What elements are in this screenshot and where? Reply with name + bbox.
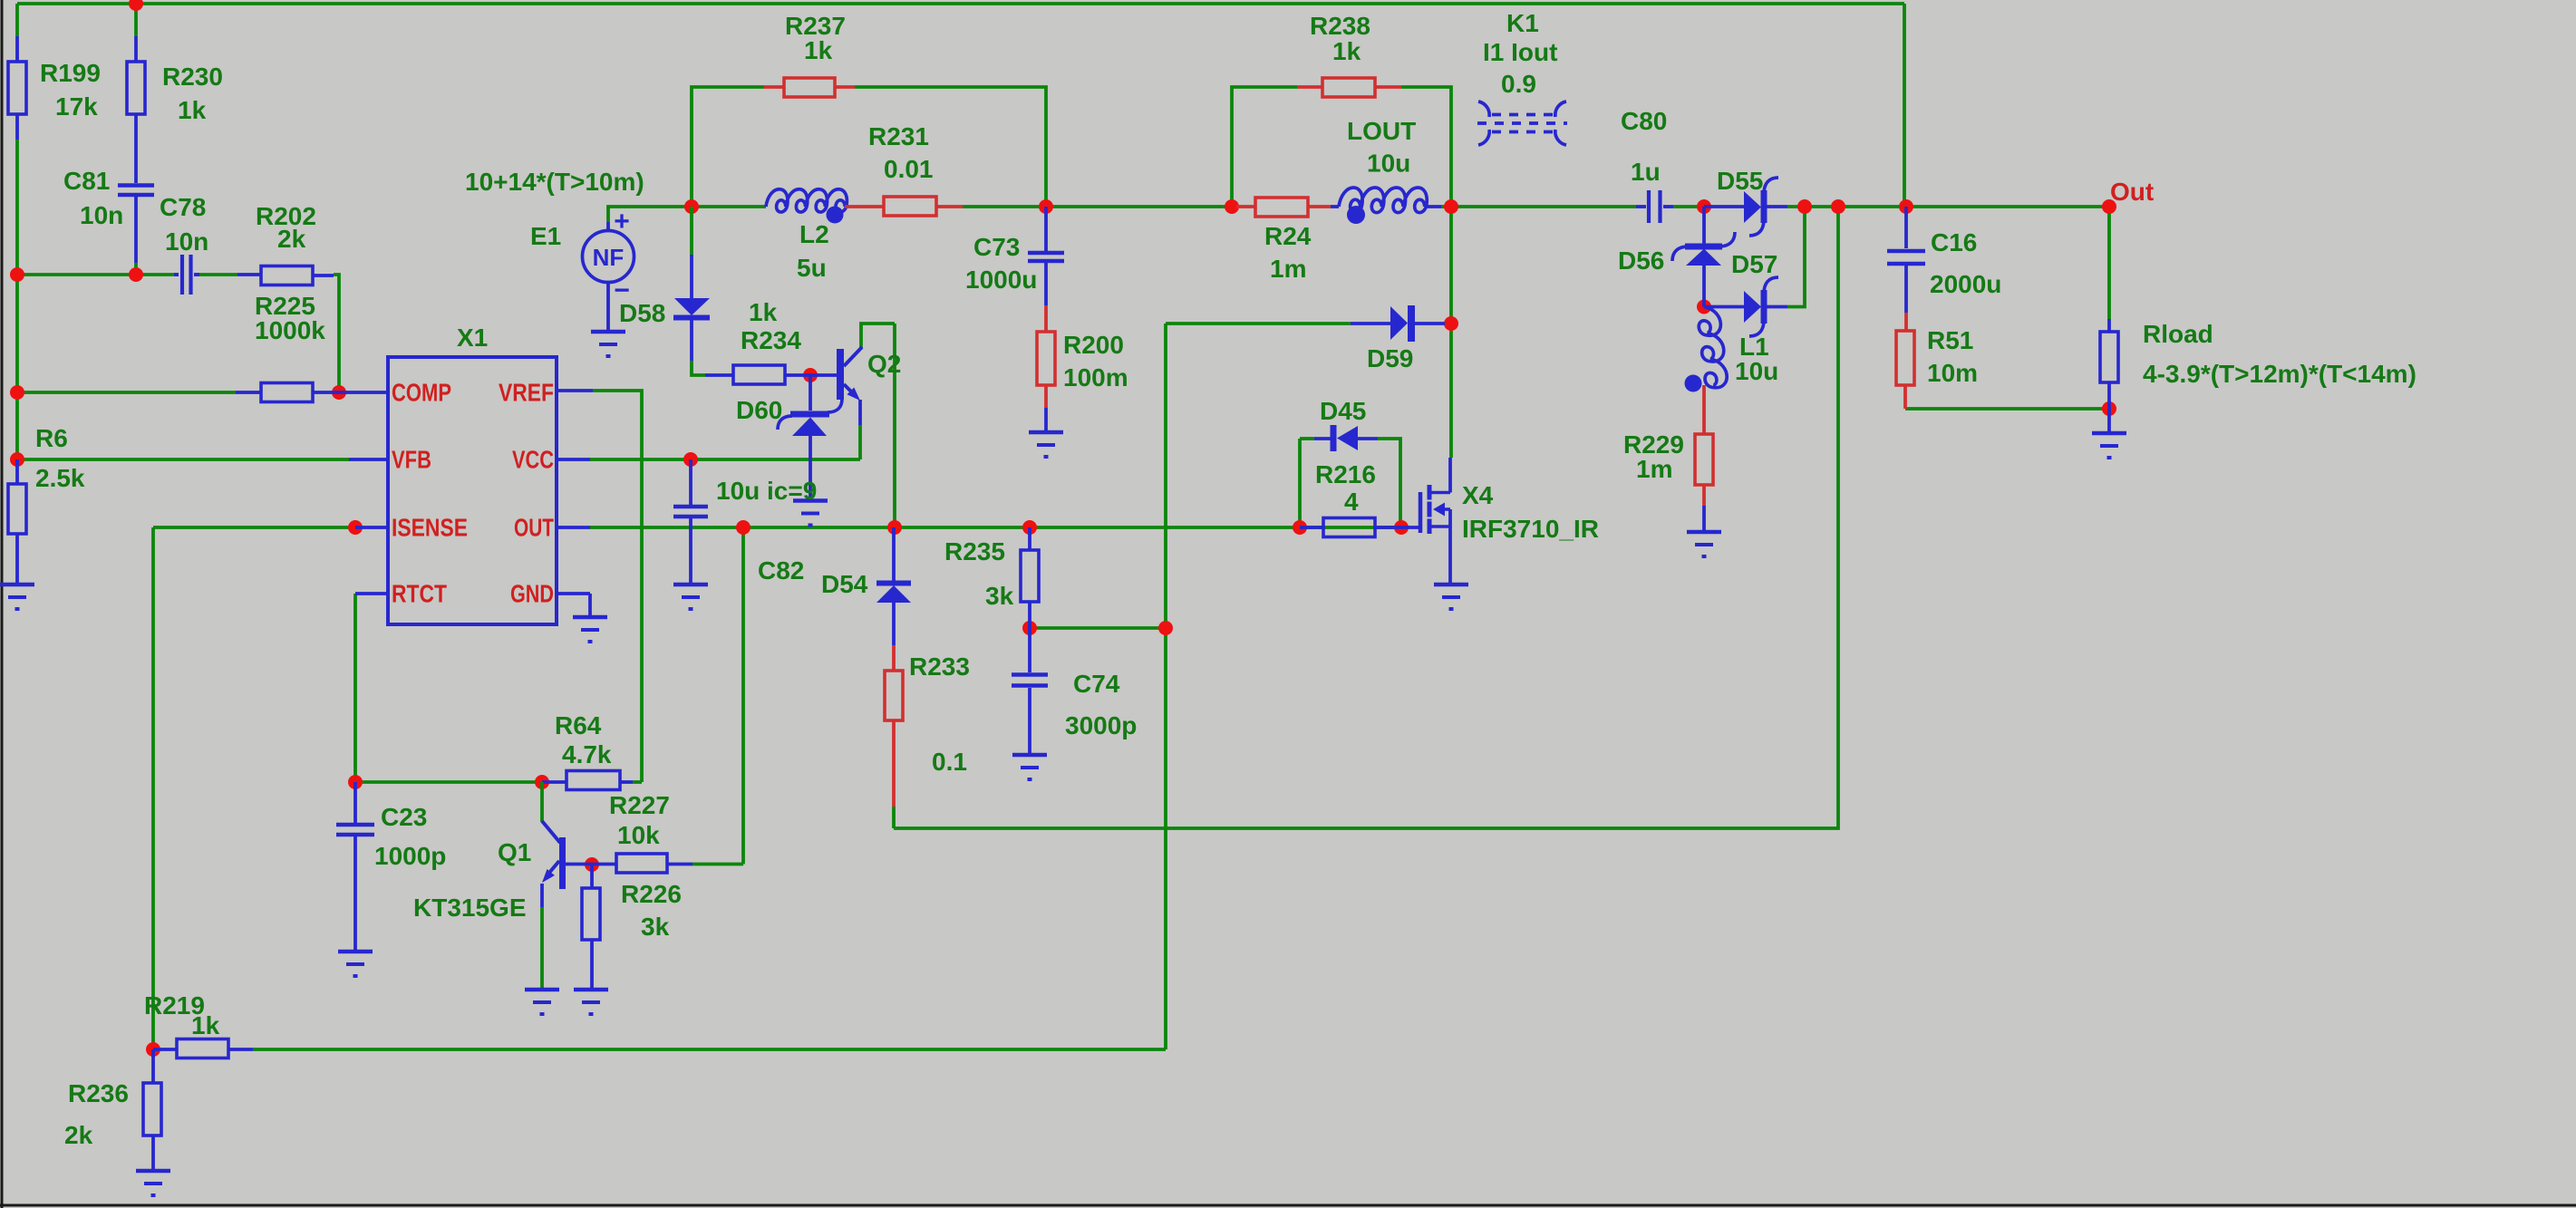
junction node (1991,228) (1797, 199, 1812, 214)
wire D58 bottom corner (692, 361, 705, 375)
ground R226 (574, 990, 608, 1014)
wire OUT row (590, 526, 1401, 529)
source E1 (583, 207, 634, 332)
wire rail D55 to Out (1787, 205, 2109, 208)
resistor R225 (236, 383, 339, 402)
label D45 (1320, 397, 1366, 425)
resistor R6 (8, 459, 26, 585)
junction node (598,863) (535, 775, 549, 789)
resistor R231 (845, 197, 963, 216)
svg-text:D58: D58 (619, 299, 665, 327)
junction node (653,954) (585, 857, 599, 872)
svg-text:0.01: 0.01 (884, 155, 934, 183)
svg-text:GND: GND (510, 580, 554, 608)
resistor R229 (1695, 385, 1713, 532)
wire Rload top (2107, 207, 2111, 319)
label C73 (965, 233, 1037, 294)
inductor L1 (1685, 307, 1728, 392)
capacitor C16 (1887, 207, 1925, 313)
svg-text:LOUT: LOUT (1347, 117, 1416, 145)
junction node (1880,228) (1697, 199, 1711, 214)
resistor R238 (1297, 78, 1401, 97)
pin ISENSE (355, 514, 468, 542)
ground C23 (338, 952, 373, 976)
svg-text:R227: R227 (609, 791, 670, 819)
capacitor C78 (174, 255, 199, 295)
svg-text:R199: R199 (40, 59, 101, 87)
svg-text:C81: C81 (63, 167, 110, 195)
label R64 (555, 711, 612, 768)
svg-text:R230: R230 (162, 63, 223, 91)
svg-text:3k: 3k (641, 913, 670, 941)
label D55 (1717, 167, 1763, 195)
svg-text:2k: 2k (277, 225, 306, 253)
label R237 (785, 12, 846, 64)
junction node (763,228) (684, 199, 699, 214)
junction node (392,863) (348, 775, 363, 789)
label R231 (868, 122, 934, 183)
wire LOUT right to rail (1441, 205, 1451, 208)
junction node (1154,228) (1039, 199, 1053, 214)
label C82 (758, 556, 804, 585)
label C82 value (716, 477, 817, 505)
svg-text:Rload: Rload (2143, 320, 2213, 348)
junction node (169,1158) (146, 1042, 160, 1057)
junction node (1136,582) (1022, 520, 1037, 535)
resistor R227 (592, 854, 692, 873)
diode D45 (1314, 425, 1378, 451)
label X1 (457, 324, 488, 352)
svg-text:4-3.9*(T>12m)*(T<14m): 4-3.9*(T>12m)*(T<14m) (2143, 360, 2416, 388)
svg-text:4.7k: 4.7k (562, 740, 612, 768)
svg-text:X4: X4 (1462, 481, 1494, 509)
wire VCC row (590, 458, 860, 461)
resistor R200 (1037, 305, 1055, 432)
svg-text:10u: 10u (1367, 150, 1410, 178)
svg-text:1000k: 1000k (255, 316, 325, 344)
svg-text:L2: L2 (799, 220, 829, 248)
resistor R51 (1896, 313, 1914, 409)
pin GND (510, 580, 590, 618)
junction node (1136,693) (1022, 621, 1037, 635)
svg-text:10n: 10n (165, 227, 208, 256)
svg-text:D60: D60 (736, 396, 782, 424)
wire D45 right column (1378, 439, 1400, 527)
transformer K1 (1477, 101, 1567, 145)
diode D55 zener (1704, 178, 1787, 236)
label R230 (162, 63, 223, 124)
junction node (1434,582) (1293, 520, 1307, 535)
wire D57 right column (1787, 207, 1805, 307)
svg-text:C73: C73 (973, 233, 1020, 261)
ground E1 (591, 332, 625, 356)
label R219 (144, 991, 220, 1039)
svg-text:17k: 17k (55, 92, 98, 121)
label Q2 (867, 350, 901, 378)
svg-text:R24: R24 (1264, 222, 1312, 250)
inductor L2 (766, 189, 847, 224)
svg-text:1u: 1u (1631, 158, 1661, 186)
svg-text:+: + (614, 207, 630, 237)
svg-text:0.9: 0.9 (1501, 70, 1536, 98)
label R236 (64, 1079, 129, 1149)
ground Q1 emitter (525, 990, 559, 1014)
svg-text:D59: D59 (1367, 344, 1413, 372)
transistor Q1 (542, 782, 592, 990)
diode D59 (1351, 305, 1445, 342)
label R51 (1927, 326, 1978, 387)
svg-text:IRF3710_IR: IRF3710_IR (1462, 515, 1599, 543)
label L2 (797, 220, 829, 282)
ground X4 source (1434, 585, 1468, 609)
label R216 (1315, 460, 1376, 516)
svg-text:C23: C23 (381, 803, 427, 831)
svg-text:R235: R235 (944, 537, 1005, 565)
label R202 (256, 202, 316, 253)
svg-text:R234: R234 (741, 326, 801, 354)
svg-text:D54: D54 (821, 570, 868, 598)
resistor R237 (764, 78, 855, 97)
label R234 (741, 298, 801, 354)
wire VFB row (17, 458, 349, 461)
svg-text:R200: R200 (1063, 331, 1124, 359)
wire D45 left column (1300, 439, 1314, 527)
label D59 (1367, 344, 1413, 372)
label R24 (1264, 222, 1312, 283)
wire R51 bottom row (1905, 407, 2109, 411)
svg-text:COMP: COMP (392, 379, 451, 407)
junction node (1880,338.5) (1697, 300, 1711, 314)
diode D54 (876, 527, 911, 645)
label D56 (1618, 246, 1664, 275)
svg-text:D57: D57 (1731, 250, 1777, 278)
svg-text:2k: 2k (64, 1121, 93, 1149)
wire main rail segment 1 (692, 205, 766, 208)
wire VREF column (593, 391, 642, 782)
label R226 (621, 880, 682, 941)
resistor R219 (153, 1039, 253, 1058)
junction node (2327,451) (2102, 401, 2116, 416)
wire Q2 collector bend (861, 324, 895, 527)
svg-text:1000u: 1000u (965, 266, 1037, 294)
svg-text:R238: R238 (1310, 12, 1370, 40)
junction node (2327,228) (2102, 199, 2116, 214)
svg-text:2000u: 2000u (1930, 270, 2001, 298)
wire R227 right (692, 863, 743, 866)
svg-text:1k: 1k (749, 298, 778, 326)
wire R235 bottom row (1030, 626, 1166, 630)
junction node (987,582) (887, 520, 902, 535)
svg-text:VREF: VREF (499, 379, 554, 407)
svg-text:KT315GE: KT315GE (413, 894, 527, 922)
label Rload (2143, 320, 2416, 388)
label R238 (1310, 12, 1370, 65)
label R199 (40, 59, 101, 121)
label D57 (1731, 250, 1777, 278)
junction node (392,582) (348, 520, 363, 535)
label R229 (1623, 430, 1684, 483)
resistor R235 (1021, 527, 1039, 628)
svg-text:2.5k: 2.5k (35, 464, 85, 492)
svg-text:X1: X1 (457, 324, 488, 352)
svg-text:3000p: 3000p (1065, 711, 1137, 739)
node Out (2110, 178, 2154, 206)
svg-text:I1 Iout: I1 Iout (1483, 38, 1557, 66)
label R227 (609, 791, 670, 849)
svg-text:R226: R226 (621, 880, 682, 908)
junction node (19,507) (10, 452, 24, 467)
resistor R64 (542, 771, 633, 790)
junction node (150,303) (129, 267, 143, 282)
label R6 (35, 424, 85, 492)
svg-text:1k: 1k (191, 1011, 220, 1039)
label L1 (1735, 333, 1778, 385)
wire Q2 emitter to VCC (858, 425, 862, 459)
ground C82 (673, 585, 708, 609)
svg-text:K1: K1 (1506, 9, 1539, 37)
svg-text:E1: E1 (530, 222, 561, 250)
svg-text:Out: Out (2110, 178, 2154, 206)
ground C74 (1012, 755, 1047, 779)
svg-text:1m: 1m (1270, 255, 1306, 283)
transistor X4 mosfet (1401, 458, 1450, 585)
junction node (1286,693) (1158, 621, 1173, 635)
resistor R234 (705, 365, 810, 384)
wire left column (15, 4, 19, 463)
pin VFB (349, 446, 431, 474)
ground Rload (2092, 409, 2126, 458)
svg-text:C82: C82 (758, 556, 804, 585)
svg-text:D56: D56 (1618, 246, 1664, 275)
zener D60 (778, 375, 842, 500)
resistor R24 (1236, 198, 1331, 217)
svg-text:D45: D45 (1320, 397, 1366, 425)
wire R219 long row (253, 1048, 1166, 1051)
svg-text:10u: 10u (1735, 357, 1778, 385)
label LOUT (1347, 117, 1416, 178)
svg-text:NF: NF (593, 244, 625, 271)
svg-text:10u ic=9: 10u ic=9 (716, 477, 817, 505)
resistor R216 (1300, 518, 1401, 537)
svg-text:10k: 10k (617, 821, 660, 849)
svg-text:C80: C80 (1621, 107, 1667, 135)
label E1 value (465, 168, 644, 196)
label C16 (1930, 228, 2001, 298)
svg-text:10+14*(T>10m): 10+14*(T>10m) (465, 168, 644, 196)
wire D59 row (1166, 322, 1351, 325)
label C23 (374, 803, 446, 870)
svg-text:4: 4 (1344, 488, 1359, 516)
wire rail R231 to C73 (963, 205, 1046, 208)
svg-text:3k: 3k (985, 582, 1014, 610)
wire R202 to COMP corner (334, 275, 339, 392)
ground R6 (0, 585, 34, 609)
capacitor C81 (118, 186, 154, 264)
ground D60 (793, 501, 828, 526)
wire rail LOUT to C80 (1451, 205, 1636, 208)
label K1 (1483, 9, 1557, 98)
svg-text:1000p: 1000p (374, 842, 446, 870)
label C74 (1065, 670, 1137, 739)
ground R236 (136, 1171, 170, 1195)
junction node (2028,228) (1831, 199, 1845, 214)
label D58 (619, 299, 665, 327)
junction node (1601,228) (1444, 199, 1458, 214)
label R235 (944, 537, 1014, 610)
wire row y303 (17, 273, 237, 276)
junction node (19,433) (10, 385, 24, 400)
junction node (1359,228) (1225, 199, 1239, 214)
svg-text:10m: 10m (1927, 359, 1978, 387)
junction node (762,507) (683, 452, 698, 467)
svg-text:R6: R6 (35, 424, 68, 452)
svg-text:VFB: VFB (392, 446, 431, 474)
svg-text:D55: D55 (1717, 167, 1763, 195)
svg-text:ISENSE: ISENSE (392, 514, 468, 542)
capacitor C23 (336, 782, 374, 952)
zener D56 (1672, 207, 1735, 307)
svg-text:R64: R64 (555, 711, 602, 739)
wire R230 column (134, 4, 138, 275)
junction node (150,4) (129, 0, 143, 11)
svg-text:1m: 1m (1636, 455, 1672, 483)
resistor R233 (885, 645, 903, 807)
svg-text:1k: 1k (178, 96, 207, 124)
wire D59 column down (1164, 324, 1167, 1049)
pin RTCT (355, 580, 447, 608)
svg-text:1k: 1k (1332, 37, 1361, 65)
wire ISENSE row (153, 526, 355, 529)
junction node (894,414) (803, 368, 818, 382)
svg-text:10n: 10n (80, 201, 123, 229)
svg-text:100m: 100m (1063, 363, 1128, 391)
diode D57 zener (1704, 277, 1787, 336)
pin VREF (499, 379, 593, 407)
wire RTCT column (353, 594, 357, 782)
junction node (820,582) (736, 520, 751, 535)
label C81 (63, 167, 123, 229)
wire drain column (1449, 207, 1453, 458)
svg-text:RTCT: RTCT (392, 580, 447, 608)
resistor R202 (237, 266, 334, 285)
wire long right column (894, 207, 1838, 828)
ground R229 (1687, 532, 1721, 556)
svg-text:0.1: 0.1 (932, 748, 967, 776)
svg-text:R216: R216 (1315, 460, 1376, 488)
capacitor C80 (1636, 190, 1673, 223)
label D54 (821, 570, 868, 598)
svg-text:R231: R231 (868, 122, 929, 150)
wire COMP row (17, 391, 236, 394)
svg-text:C74: C74 (1073, 670, 1120, 698)
junction node (19,303) (10, 267, 24, 282)
resistor R236 (143, 1049, 161, 1171)
wire C16 top corner (1903, 4, 1906, 207)
svg-text:OUT: OUT (514, 514, 554, 542)
wire R238 loop (1232, 87, 1451, 207)
label C80 (1621, 107, 1667, 186)
label X4 (1462, 481, 1599, 543)
ground X1 GND (573, 617, 607, 642)
inductor LOUT (1331, 188, 1441, 224)
junction node (2103,228) (1899, 199, 1913, 214)
diode D58 (673, 207, 710, 361)
svg-text:R233: R233 (909, 652, 970, 681)
label R225 (255, 292, 325, 344)
svg-text:VCC: VCC (512, 446, 554, 474)
label D60 (736, 396, 782, 424)
resistor Rload (2100, 319, 2118, 409)
pin OUT (514, 514, 590, 542)
wire ISENSE down column (151, 527, 155, 1049)
svg-text:R51: R51 (1927, 326, 1973, 354)
pin COMP (339, 379, 451, 407)
svg-text:Q2: Q2 (867, 350, 901, 378)
wire rail C80 to D56 node (1673, 205, 1704, 208)
wire rail C73 to R24 (1046, 205, 1236, 208)
svg-text:1k: 1k (804, 36, 833, 64)
wire R64 row (355, 780, 642, 784)
svg-text:Q1: Q1 (498, 838, 531, 866)
svg-text:R236: R236 (68, 1079, 129, 1107)
capacitor C73 (1028, 207, 1064, 305)
resistor R226 (582, 865, 600, 991)
transistor Q2 (810, 347, 862, 425)
junction node (374,433) (332, 385, 346, 400)
svg-text:C16: C16 (1931, 228, 1977, 256)
resistor R199 (8, 36, 26, 140)
junction node (1546,582) (1394, 520, 1409, 535)
label C78 (160, 193, 208, 256)
wire E1 top (608, 207, 692, 222)
capacitor C74 (1012, 628, 1048, 755)
op-amp U1 box X1 (388, 357, 557, 624)
label R233 (909, 652, 970, 776)
label E1 (530, 222, 561, 250)
wire top rail (17, 2, 1904, 5)
junction node (1601,357) (1444, 316, 1458, 331)
label R200 (1063, 331, 1128, 391)
capacitor C82 (673, 459, 708, 585)
svg-text:5u: 5u (797, 254, 827, 282)
label Q1 (413, 838, 531, 922)
resistor R230 (127, 36, 145, 183)
ground R200 (1029, 432, 1063, 457)
svg-text:C78: C78 (160, 193, 206, 221)
wire OUT to R227 column (741, 527, 745, 865)
wire R237 loop (692, 87, 1046, 207)
pin VCC (512, 446, 590, 474)
